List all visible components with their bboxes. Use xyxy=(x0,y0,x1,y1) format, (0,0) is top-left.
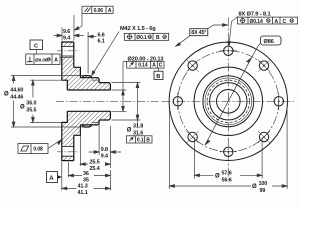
dim 25.5 25.4 xyxy=(80,129,110,167)
bolt hole 6 lower left xyxy=(187,131,199,143)
section centerline xyxy=(56,100,159,102)
svg-text:Ø0.06: Ø0.06 xyxy=(35,57,48,63)
FCF position holes xyxy=(238,17,298,24)
leader from 8X45 to centerline xyxy=(208,24,228,29)
front view vertical centerline xyxy=(227,18,229,181)
leader from 8X45 to outer circle xyxy=(176,36,190,47)
svg-text:35: 35 xyxy=(83,177,89,183)
svg-text:0.08: 0.08 xyxy=(33,147,43,153)
bolt hole centerline top xyxy=(57,50,79,52)
dim D100 99 xyxy=(170,106,288,189)
thread major circle M42 xyxy=(203,76,254,127)
bolt circle D86 xyxy=(178,51,279,152)
boss circle D57.6 xyxy=(194,67,262,135)
svg-text:41.1: 41.1 xyxy=(78,190,88,196)
thread root line top xyxy=(92,79,99,81)
svg-text:25.4: 25.4 xyxy=(90,166,100,172)
FCF perpendicularity xyxy=(26,54,60,65)
leader M42 to thread xyxy=(92,32,119,76)
svg-text:6.1: 6.1 xyxy=(98,39,105,45)
svg-text:M: M xyxy=(148,35,151,39)
bolt hole 7 left xyxy=(173,93,182,110)
bore 20 walls xyxy=(67,90,110,111)
datum A box xyxy=(47,172,62,183)
bolt hole centerline bottom xyxy=(57,151,79,153)
svg-text:C: C xyxy=(159,63,163,69)
svg-text:B: B xyxy=(146,137,150,143)
thread crest top xyxy=(92,78,99,79)
svg-text:C: C xyxy=(283,19,287,25)
svg-text:Ø: Ø xyxy=(20,104,25,110)
svg-text:Ø86: Ø86 xyxy=(264,39,274,45)
svg-text:44.46: 44.46 xyxy=(10,95,23,101)
datum B box under FCF xyxy=(154,68,163,80)
boss outline xyxy=(74,67,81,135)
D86 label box xyxy=(258,36,282,47)
svg-text:A: A xyxy=(108,8,112,14)
svg-text:9.4: 9.4 xyxy=(63,36,70,42)
svg-text:C: C xyxy=(34,44,38,50)
front view horizontal centerline xyxy=(162,100,295,102)
right end face xyxy=(109,84,111,118)
dim 6.6 6.1 undercut xyxy=(88,32,96,74)
bolt hole 2 upper right xyxy=(258,60,270,72)
svg-text:M: M xyxy=(163,35,166,39)
svg-text:M: M xyxy=(290,19,293,23)
svg-text:Ø0.1: Ø0.1 xyxy=(136,35,147,41)
svg-text:Ø: Ø xyxy=(127,128,132,134)
svg-text:57.6: 57.6 xyxy=(222,170,232,176)
svg-text:M42 X 1.5 - 6g: M42 X 1.5 - 6g xyxy=(120,26,156,32)
svg-text:A: A xyxy=(275,19,279,25)
D86 diagonal dimension line xyxy=(205,47,258,145)
dim 9.8 9.4 counterbore depth xyxy=(89,122,122,169)
pilot tip step walls xyxy=(98,79,100,124)
svg-text:Ø: Ø xyxy=(4,92,9,98)
FCF runout D20 xyxy=(127,61,164,68)
dim 36 35 xyxy=(69,162,111,178)
undercut groove top xyxy=(80,76,91,78)
dim 41.3 41.1 xyxy=(62,162,111,191)
svg-text:41.3: 41.3 xyxy=(78,184,88,190)
counterbore 36 walls xyxy=(62,80,68,122)
svg-text:8X 45°: 8X 45° xyxy=(191,30,206,36)
thread root line bottom xyxy=(92,122,99,124)
SECTION VIEW hatch top half xyxy=(62,42,111,90)
svg-text:0.1: 0.1 xyxy=(137,137,144,143)
bolt hole 1 top xyxy=(220,46,237,55)
svg-text:9.4: 9.4 xyxy=(101,154,108,160)
svg-text:44.60: 44.60 xyxy=(10,87,23,93)
dim line D20 bore xyxy=(112,62,127,112)
bolt hole gap in plate top xyxy=(61,46,74,56)
dim D44.60 44.46 xyxy=(11,76,84,127)
FCF runout D31.8 xyxy=(127,136,153,143)
plate bolt hole edges bottom xyxy=(62,147,74,157)
svg-text:0.14: 0.14 xyxy=(138,63,148,69)
bolt hole 3 right xyxy=(274,93,283,110)
bolt hole 4 lower right xyxy=(258,131,270,143)
svg-text:A: A xyxy=(54,57,58,63)
leader parallelism FCF xyxy=(74,13,82,30)
plate bolt hole edges top xyxy=(62,46,74,56)
svg-text:25.5: 25.5 xyxy=(90,159,100,165)
svg-text:36.0: 36.0 xyxy=(26,101,36,107)
svg-text:9.6: 9.6 xyxy=(63,29,70,35)
dim D57.6 56.6 xyxy=(195,137,263,179)
FRONT VIEW xyxy=(169,42,287,160)
FCF flatness xyxy=(18,144,48,154)
undercut groove bottom xyxy=(80,125,91,127)
FCF parallelism xyxy=(82,6,113,13)
svg-text:99: 99 xyxy=(260,188,266,194)
svg-text:Ø0.14: Ø0.14 xyxy=(250,19,263,25)
svg-text:8X Ø7.9 - 8.1: 8X Ø7.9 - 8.1 xyxy=(239,12,271,18)
circle D20 xyxy=(217,90,241,114)
svg-text:56.6: 56.6 xyxy=(222,177,232,183)
SECTION VIEW hatch bottom half xyxy=(62,111,111,160)
svg-text:35.5: 35.5 xyxy=(26,108,36,114)
dim 9.6 9.4 plate thickness xyxy=(54,15,85,41)
pilot tip D31.8 outline xyxy=(99,83,110,120)
bolt hole gap in plate bottom xyxy=(61,147,74,157)
svg-text:100: 100 xyxy=(259,181,268,187)
svg-text:Ø: Ø xyxy=(215,174,220,180)
svg-text:A: A xyxy=(152,63,156,69)
svg-text:36: 36 xyxy=(83,171,89,177)
dim D36.0 35.5 xyxy=(30,80,62,122)
datum C box xyxy=(30,40,43,54)
bolt hole 8 upper left xyxy=(187,60,199,72)
leader flatness FCF xyxy=(48,140,62,149)
dim D31.8 31.6 xyxy=(112,83,141,128)
svg-text:B: B xyxy=(156,35,160,41)
thread root circle xyxy=(205,78,252,125)
hidden circle D36 xyxy=(207,80,249,122)
svg-text:Ø: Ø xyxy=(252,184,257,190)
svg-text:0.06: 0.06 xyxy=(94,8,104,14)
bolt hole 5 bottom xyxy=(220,147,237,156)
thread crest bottom xyxy=(92,124,99,125)
svg-text:31.8: 31.8 xyxy=(133,123,143,129)
leader perpendicularity FCF xyxy=(60,57,74,59)
svg-text:9.8: 9.8 xyxy=(101,147,108,153)
svg-text:B: B xyxy=(156,74,160,80)
svg-text:M: M xyxy=(267,19,270,23)
outer circle D100 xyxy=(169,42,287,160)
leader 8X holes xyxy=(228,17,238,47)
note 8X 45 box xyxy=(190,29,208,37)
circle D31.8 xyxy=(210,83,247,120)
flange plate outline xyxy=(62,42,74,161)
FCF position thread xyxy=(124,33,168,40)
